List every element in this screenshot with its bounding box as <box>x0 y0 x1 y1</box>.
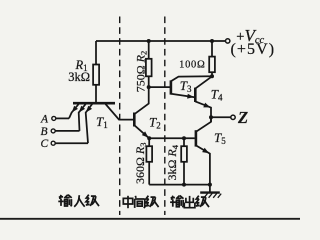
transistor T4 base bar <box>194 88 197 102</box>
transistor T2 emitter <box>134 125 150 139</box>
border bottom rule <box>0 218 300 220</box>
label R1 3kOhm <box>68 58 90 84</box>
node T2 collector junction <box>147 85 151 89</box>
stage divider dashed line left <box>119 17 121 216</box>
node output-stage collector junction <box>210 74 214 78</box>
svg-text:C: C <box>41 138 49 150</box>
wire input A <box>56 117 69 119</box>
transistor T1 collector <box>106 104 134 120</box>
transistor T1 multi-emitter: base bar <box>73 102 115 105</box>
svg-text:(+5V): (+5V) <box>231 41 276 58</box>
node R4 top junction <box>182 136 186 140</box>
terminal B <box>51 129 55 133</box>
svg-text:Z: Z <box>237 108 248 127</box>
svg-text:3kΩ R4: 3kΩ R4 <box>165 144 180 180</box>
transistor T5 collector <box>196 117 211 132</box>
terminal Z <box>231 115 235 119</box>
label input stage (shu ru ji) <box>58 195 99 207</box>
transistor T3 collector <box>171 76 212 81</box>
transistor T1 emitter 2 <box>77 104 86 131</box>
ground <box>200 185 221 198</box>
svg-text:750Ω R2: 750Ω R2 <box>134 51 149 93</box>
label output stage (shu chu ji) <box>170 196 209 208</box>
transistor T1 emitter 3 <box>84 104 92 143</box>
resistor R2 <box>146 41 152 76</box>
resistor 100 Ohm <box>209 41 215 76</box>
label +Vcc (+5V) <box>231 26 276 58</box>
wire T2 emitter to T5 base <box>149 137 195 139</box>
resistor R4 <box>181 138 187 184</box>
node ground junction <box>208 183 212 187</box>
stage divider dashed line right <box>164 17 166 216</box>
transistor T5 base bar <box>195 130 198 146</box>
svg-text:360Ω R3: 360Ω R3 <box>133 142 148 184</box>
svg-text:100Ω: 100Ω <box>179 60 205 71</box>
terminal Vcc <box>226 39 230 43</box>
wire T2 collector to T3 base <box>149 86 170 88</box>
resistor R3 <box>146 138 152 184</box>
terminal C <box>51 141 55 145</box>
transistor T1 emitter 1 <box>69 104 79 118</box>
node T2 emitter junction <box>147 136 151 140</box>
wire input B <box>55 130 79 132</box>
label middle stage (zhong jian ji) <box>123 196 158 208</box>
transistor T4 collector <box>195 76 212 88</box>
transistor T4 emitter <box>195 101 211 122</box>
node 100 Ohm top rail junction <box>210 39 214 43</box>
transistor T3 emitter <box>171 94 195 100</box>
transistor T2 collector <box>134 76 148 114</box>
wire ground rail <box>149 184 210 186</box>
node R2 top rail junction <box>147 39 151 43</box>
node output junction <box>209 115 213 119</box>
resistor R1 <box>93 41 99 103</box>
svg-text:A: A <box>40 113 49 125</box>
transistor T5 emitter <box>196 145 210 184</box>
transistor T2 base bar <box>133 113 136 127</box>
terminal A <box>52 116 56 120</box>
transistor T3 base bar <box>170 80 173 94</box>
wire Vcc top rail <box>96 40 225 42</box>
wire output <box>211 116 231 118</box>
wire input C <box>55 142 88 144</box>
svg-text:3kΩ: 3kΩ <box>68 70 90 84</box>
svg-text:B: B <box>41 126 48 138</box>
node R4 bottom junction <box>182 183 186 187</box>
